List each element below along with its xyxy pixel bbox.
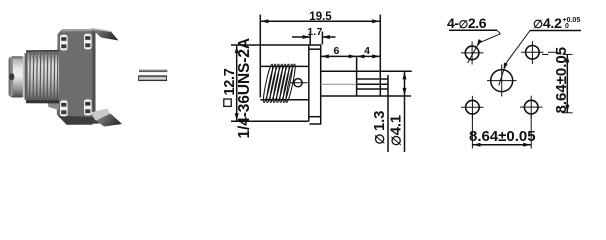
pin bar thick xyxy=(139,76,167,81)
flange right face xyxy=(320,45,322,124)
hole slot bottom-left xyxy=(60,100,68,116)
hole top-right xyxy=(521,41,556,64)
vent hole circle xyxy=(294,79,302,87)
right extension line (19.5 / 4 / end face) xyxy=(379,15,381,97)
thread helix streaks on upper surface xyxy=(29,51,59,57)
hole slot top-left xyxy=(60,35,68,51)
dia1.3 leader / pin end face xyxy=(387,75,389,152)
shaft top edge xyxy=(321,70,381,72)
flange top chamfer line xyxy=(309,48,320,50)
hole slot bottom-right xyxy=(84,99,92,115)
dia4.1 bottom extension right xyxy=(380,95,411,97)
svg-text:6: 6 xyxy=(333,45,339,57)
svg-text:4-∅2.6: 4-∅2.6 xyxy=(447,15,487,31)
hole slot top-right xyxy=(84,34,92,50)
center hole dia4.2 xyxy=(487,65,517,97)
text 4-dia2.6 with underline xyxy=(447,15,497,31)
dimension 19.5 line xyxy=(260,19,380,23)
insulator center line gray xyxy=(321,83,357,85)
body top edge xyxy=(260,65,309,67)
sq12.7 bottom extension xyxy=(231,120,309,122)
leader to top-left hole xyxy=(468,30,501,63)
thread crests (coil) xyxy=(262,64,297,103)
front face line + 19.5 left extension xyxy=(259,15,261,98)
flange plate face xyxy=(57,30,93,126)
barrel nose xyxy=(9,56,27,97)
vent hole centerline xyxy=(290,82,308,84)
right dimension 8.64 +-0.05 (rotated) xyxy=(542,47,573,114)
nose front face xyxy=(9,57,14,97)
flange bottom chamfer line xyxy=(309,116,320,118)
svg-text:0: 0 xyxy=(565,23,569,30)
shoulder above barrel xyxy=(47,100,59,110)
leader to center hole xyxy=(499,31,530,86)
shaft bottom edge xyxy=(321,95,381,97)
dia4.1 dimension vertical with arrows xyxy=(403,71,407,152)
pin top line xyxy=(357,78,388,80)
sq12.7 dimension line xyxy=(235,45,239,121)
step vertical (body end) xyxy=(356,62,358,96)
bottom dark band xyxy=(58,116,100,125)
body bottom edge xyxy=(260,99,309,101)
svg-text:19.5: 19.5 xyxy=(309,11,332,23)
svg-text:4: 4 xyxy=(364,45,370,57)
text dia4.2 +0.05/0 with underline xyxy=(530,15,581,31)
pin bar thin xyxy=(139,70,167,72)
svg-text:1.7: 1.7 xyxy=(307,26,322,38)
plate right thin side xyxy=(93,30,96,123)
separate contact pin (two bars) xyxy=(139,70,168,81)
svg-text:∅ 1.3: ∅ 1.3 xyxy=(371,111,388,145)
dimension 6 and 4 xyxy=(321,54,381,62)
hole bottom-right xyxy=(520,96,543,119)
bottom-right bright chamfer wedge xyxy=(91,109,111,121)
flange bottom edge xyxy=(309,123,321,125)
svg-text:∅4.1: ∅4.1 xyxy=(388,115,405,146)
flange left face xyxy=(308,45,310,121)
svg-text:8.64±0.05: 8.64±0.05 xyxy=(553,47,570,114)
top-right chamfer flap xyxy=(91,29,119,41)
barrel threaded section xyxy=(26,51,59,104)
hole top-left xyxy=(461,42,484,65)
thread top/bottom scallop edges xyxy=(26,50,59,52)
bottom-right dark flap xyxy=(96,114,122,127)
3D view: connector photo-style rendering xyxy=(9,28,123,127)
hole bottom-left xyxy=(461,96,484,119)
plate top edge highlight xyxy=(62,29,93,32)
svg-text:8.64±0.05: 8.64±0.05 xyxy=(469,128,536,145)
pin bottom line xyxy=(357,88,388,90)
text sq12.7 (rotated) xyxy=(224,99,231,106)
dia4.1 top extension right xyxy=(380,70,412,72)
pin mid line xyxy=(357,83,388,85)
bottom dimension 8.64 +-0.05 xyxy=(469,115,536,149)
flange top edge + sq12.7 top extension xyxy=(231,44,321,46)
svg-text:1/4-36UNS-2A: 1/4-36UNS-2A xyxy=(236,38,253,138)
dimension 1.7 xyxy=(292,32,336,45)
